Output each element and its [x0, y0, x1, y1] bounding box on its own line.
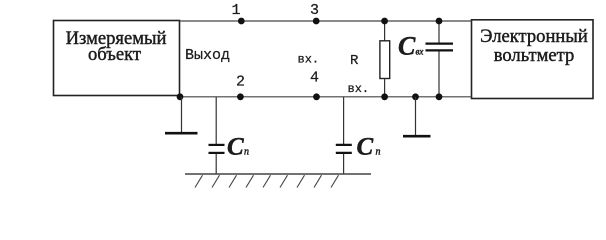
node 1 — [238, 18, 245, 25]
node resistor bottom — [381, 93, 388, 100]
wire top — [180, 20, 472, 22]
capacitor Cп2 — [343, 97, 345, 144]
node at measured object corner — [177, 93, 184, 100]
svg-text:C: C — [398, 32, 416, 61]
svg-text:Выход: Выход — [185, 47, 230, 64]
electronic voltmeter box — [472, 20, 594, 99]
svg-text:п: п — [376, 147, 381, 158]
capacitor Cвх — [438, 21, 440, 43]
svg-text:вх.: вх. — [348, 82, 370, 96]
svg-text:C: C — [357, 134, 374, 161]
resistor R — [384, 21, 386, 41]
ground hatching — [195, 175, 339, 187]
svg-text:2: 2 — [236, 73, 245, 90]
svg-text:R: R — [350, 53, 359, 69]
node 3 — [313, 18, 320, 25]
capacitor Cп1 — [215, 97, 217, 144]
svg-text:1: 1 — [231, 2, 240, 19]
svg-text:вх.: вх. — [298, 53, 320, 67]
svg-text:вольтметр: вольтметр — [494, 45, 575, 66]
ground bus — [185, 173, 371, 175]
wire bottom — [180, 96, 472, 98]
ground left — [181, 97, 183, 132]
ground right — [415, 97, 417, 135]
svg-text:3: 3 — [310, 2, 319, 19]
measured object box — [54, 21, 180, 96]
node 2 — [237, 93, 244, 100]
node resistor top — [381, 18, 388, 25]
node ground right — [412, 93, 419, 100]
node 4 — [313, 93, 320, 100]
svg-text:объект: объект — [88, 44, 141, 65]
svg-text:4: 4 — [310, 70, 319, 87]
svg-text:C: C — [227, 134, 244, 161]
svg-text:п: п — [244, 147, 249, 158]
node Cвх top — [436, 18, 443, 25]
node Cвх bottom — [436, 93, 443, 100]
svg-text:вх: вх — [416, 46, 424, 56]
